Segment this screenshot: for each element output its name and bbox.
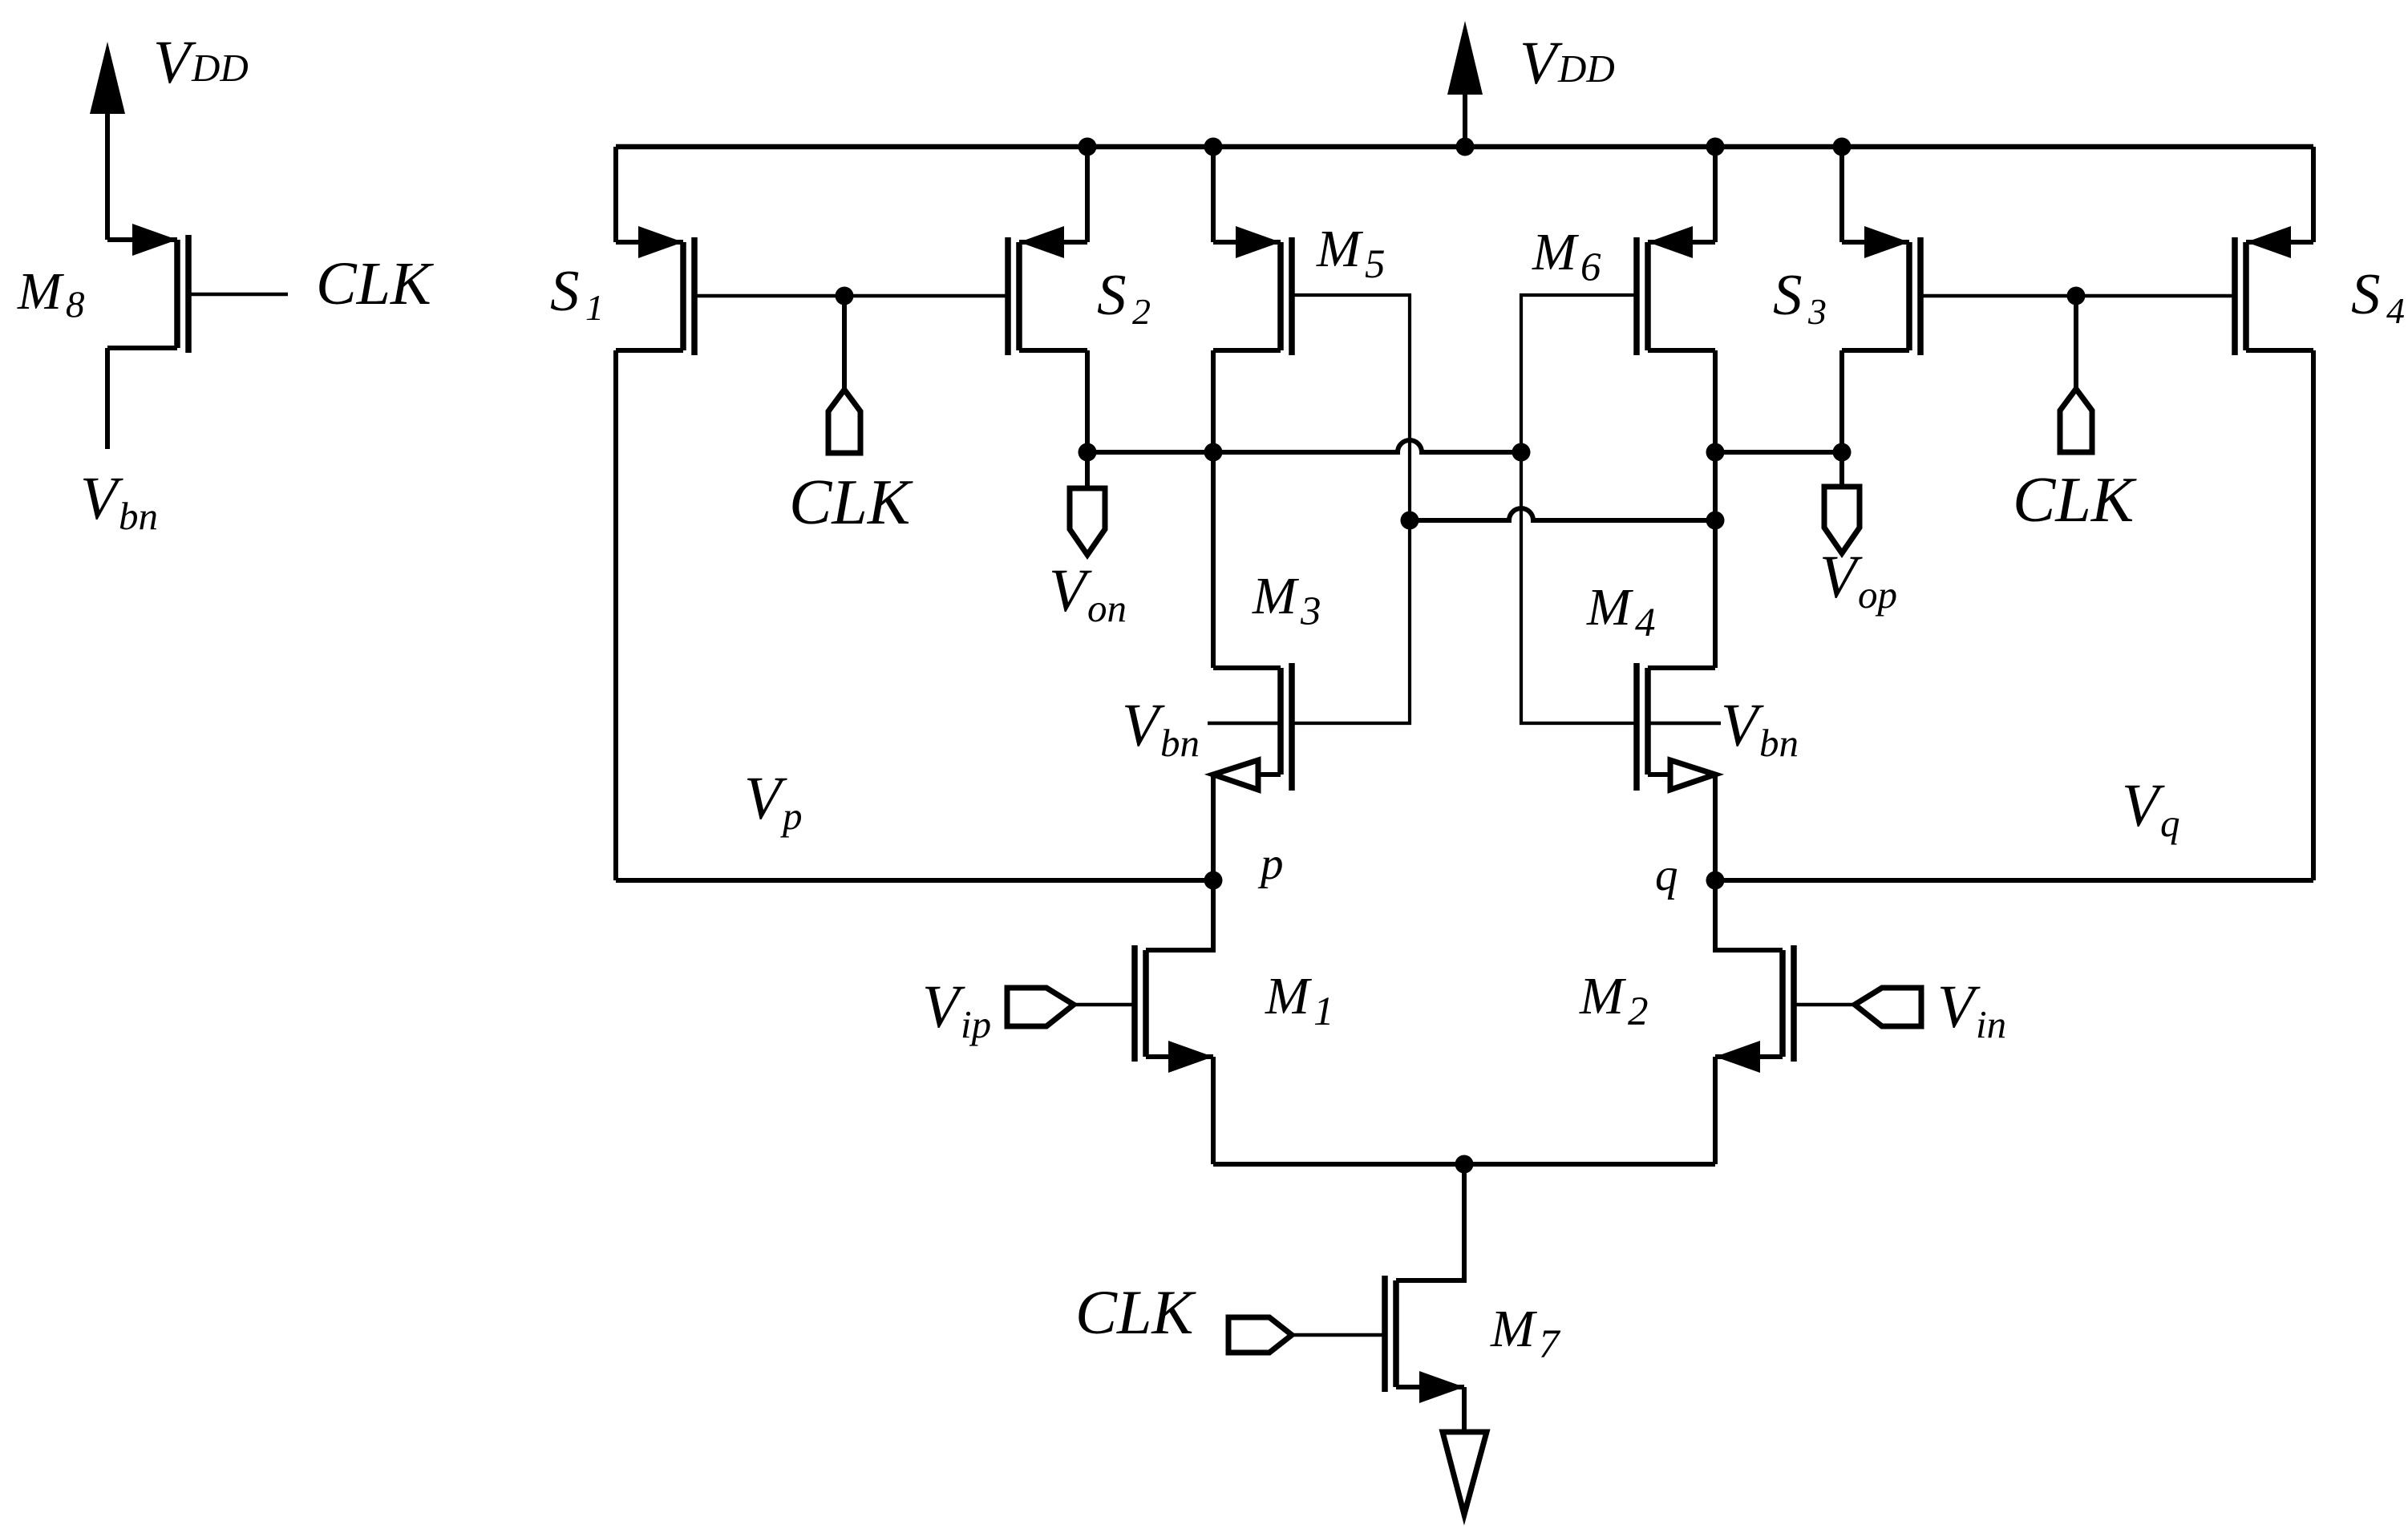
label M4 [1586, 578, 1656, 645]
label S2 [1097, 262, 1151, 332]
transistor M4 [1637, 663, 1721, 791]
svg-text:M: M [1316, 220, 1364, 278]
svg-text:S: S [2351, 261, 2381, 326]
svg-text:4: 4 [2386, 290, 2405, 331]
wire S3-S4 gate run [1920, 294, 2235, 298]
svg-text:S: S [1097, 262, 1127, 327]
power VDD (center supply arrow) [1447, 21, 1483, 147]
svg-text:M: M [1579, 967, 1627, 1025]
svg-text:V: V [1937, 973, 1981, 1041]
wire M2 drain from node q [1715, 880, 1783, 950]
svg-text:M: M [1532, 223, 1580, 281]
transistor M2 [1715, 945, 1855, 1073]
terminal Vip input [1007, 988, 1074, 1026]
svg-text:4: 4 [1635, 601, 1656, 645]
node CLK-right junction [2067, 287, 2086, 305]
svg-text:7: 7 [1539, 1322, 1561, 1367]
wire node p row [616, 878, 1213, 883]
terminal CLK input (M7 gate) [1228, 1317, 1292, 1353]
svg-text:p: p [1257, 839, 1284, 889]
node rail-M5 [1204, 138, 1223, 156]
wire S2 source to rail [1085, 147, 1090, 242]
wire S1-S2 gate run [694, 294, 1008, 298]
ground [1443, 1432, 1487, 1515]
transistor M7 [1292, 1276, 1464, 1403]
wire M5 gate to cross-couple column [1292, 295, 1410, 520]
svg-text:V: V [1819, 544, 1863, 611]
svg-text:S: S [1773, 262, 1803, 327]
svg-text:2: 2 [1132, 291, 1151, 332]
svg-text:1: 1 [585, 287, 604, 328]
wire node q row [1715, 878, 2313, 883]
wire M4 source to node q [1713, 775, 1718, 880]
label VDD (center) [1520, 30, 1615, 97]
terminal Vin input [1855, 988, 1921, 1026]
node rowA-M6drain [1706, 443, 1725, 462]
node rowA-M6gate [1512, 443, 1531, 462]
terminal Von output [1070, 488, 1105, 555]
svg-text:CLK: CLK [1075, 1277, 1196, 1347]
wire M1 source to tail [1211, 1057, 1216, 1164]
svg-text:CLK: CLK [2013, 465, 2137, 536]
node Vop [1833, 443, 1852, 462]
svg-text:V: V [1520, 30, 1563, 97]
label M3 [1252, 567, 1321, 634]
wire top VDD rail [616, 144, 2313, 150]
label Vbn (M3) [1122, 692, 1200, 765]
node tail [1455, 1155, 1474, 1174]
node q [1706, 872, 1725, 890]
wire M5 source to rail [1211, 147, 1216, 242]
svg-text:S: S [550, 258, 580, 323]
wire S3 source to rail [1839, 147, 1844, 242]
label M2 [1579, 967, 1649, 1034]
svg-text:V: V [922, 973, 965, 1041]
transistor S4 [2235, 226, 2313, 355]
svg-text:3: 3 [1300, 589, 1321, 634]
power VDD (M8 supply arrow) [90, 42, 125, 240]
wire CLK stub right [2074, 296, 2078, 389]
node rail-M6 [1706, 138, 1725, 156]
svg-text:DD: DD [1557, 47, 1615, 91]
svg-text:1: 1 [1313, 989, 1334, 1034]
transistor S1 [616, 226, 694, 355]
label S4 [2351, 261, 2405, 331]
label S1 [550, 258, 604, 328]
svg-text:in: in [1976, 1002, 2006, 1046]
label Vip [922, 973, 991, 1046]
node rowA-M5drain [1204, 443, 1223, 462]
label M1 [1265, 967, 1334, 1034]
wire M6 gate to cross-couple column [1521, 295, 1637, 452]
svg-text:bn: bn [1160, 721, 1200, 765]
label Vp [744, 765, 803, 838]
label M7 [1490, 1300, 1561, 1367]
svg-text:V: V [80, 465, 123, 532]
svg-text:3: 3 [1807, 291, 1827, 332]
wire S4 source to rail corner [2311, 147, 2316, 242]
wire M6 drain down through rows A,B to M4 drain [1713, 350, 1718, 668]
transistor S3 [1842, 226, 1920, 355]
wire Vop terminal stub [1839, 452, 1844, 487]
label M8 [17, 262, 85, 326]
svg-text:V: V [2122, 772, 2165, 839]
wire CLK stub left [842, 296, 847, 390]
label Vbn (M4) [1721, 692, 1799, 765]
wire M1 drain from node p [1146, 880, 1213, 950]
node rail-VDD [1456, 138, 1475, 156]
wire Von terminal stub [1085, 452, 1090, 488]
label Vin [1937, 973, 2006, 1046]
wire M5-gate column down to M3 gate [1292, 520, 1410, 723]
wire tail row [1213, 1162, 1715, 1167]
svg-text:ip: ip [961, 1002, 991, 1046]
svg-text:on: on [1087, 586, 1127, 630]
node p [1204, 872, 1223, 890]
svg-text:CLK: CLK [789, 467, 913, 538]
transistor M8 [107, 224, 288, 449]
label Vq [2122, 772, 2180, 845]
transistor M1 [1074, 945, 1213, 1073]
node rail-S2 [1079, 138, 1097, 156]
wire M7 source to ground [1462, 1387, 1467, 1432]
wire row Vop segment [1715, 450, 1842, 455]
label M5 [1316, 220, 1386, 287]
transistor M3 [1208, 663, 1292, 791]
wire S3 drain to node Vop [1839, 350, 1844, 452]
svg-text:DD: DD [191, 46, 249, 90]
node CLK-left junction [836, 287, 854, 305]
wire M6-gate column down to M4 gate [1521, 452, 1637, 723]
wire S2 drain to node Von [1085, 350, 1090, 452]
transistor M6 [1637, 226, 1715, 355]
svg-text:V: V [1721, 692, 1764, 759]
wire M6 source to rail [1713, 147, 1718, 242]
node rowB-left [1401, 512, 1419, 530]
wire S4 drain down to node q (Vq wire) [2311, 350, 2316, 880]
svg-text:V: V [1122, 692, 1165, 759]
svg-text:M: M [1265, 967, 1313, 1025]
terminal Vop output [1824, 487, 1860, 553]
wire tail to M7 drain [1396, 1164, 1464, 1280]
svg-text:V: V [744, 765, 787, 832]
wire row Von (hops over M5-gate column) [1087, 440, 1521, 452]
svg-text:q: q [1655, 850, 1678, 900]
svg-text:5: 5 [1365, 242, 1386, 287]
transistor M5 [1213, 226, 1292, 355]
terminal CLK input (left) [828, 390, 860, 453]
svg-text:8: 8 [66, 284, 85, 326]
transistor S2 [1008, 226, 1087, 355]
wire M2 source to tail [1713, 1057, 1718, 1164]
svg-text:6: 6 [1580, 245, 1601, 290]
label Vbn (M8 source) [80, 465, 158, 538]
label S3 [1773, 262, 1827, 332]
wire row cross (hops over M6-gate column) [1410, 508, 1715, 520]
svg-text:q: q [2160, 801, 2180, 845]
svg-text:p: p [780, 794, 803, 838]
svg-text:bn: bn [119, 494, 158, 538]
node rail-S3 [1833, 138, 1852, 156]
svg-text:2: 2 [1628, 989, 1649, 1034]
svg-text:M: M [1586, 578, 1634, 637]
svg-text:M: M [1490, 1300, 1538, 1358]
wire M3 source to node p [1211, 775, 1216, 880]
wire S1 drain down to node p (Vp wire) [613, 350, 618, 880]
label Vop [1819, 544, 1897, 617]
svg-text:V: V [153, 29, 196, 96]
node rowB-right [1706, 512, 1725, 530]
label Von [1049, 557, 1127, 630]
svg-text:op: op [1858, 572, 1897, 617]
svg-text:M: M [1252, 567, 1300, 625]
wire S1 source to rail [613, 147, 618, 242]
svg-text:bn: bn [1759, 721, 1799, 765]
wire M5 drain down through Von row to M3 drain [1211, 350, 1216, 668]
svg-text:M: M [17, 262, 65, 321]
node Von [1079, 443, 1097, 462]
svg-text:V: V [1049, 557, 1092, 625]
terminal CLK input (right) [2060, 389, 2092, 452]
svg-text:CLK: CLK [316, 250, 434, 318]
label VDD (M8) [153, 29, 249, 96]
label M6 [1532, 223, 1601, 290]
